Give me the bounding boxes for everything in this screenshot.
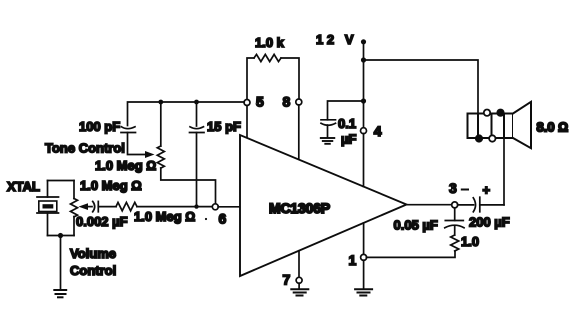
volume control potentiometer 1.0 Meg [70, 178, 142, 278]
svg-text:1.0: 1.0 [461, 234, 479, 249]
minus label [462, 189, 468, 191]
resistor 1.0 Meg series [116, 202, 195, 224]
svg-text:7: 7 [283, 272, 291, 288]
tone control potentiometer 1.0 Meg [45, 102, 164, 173]
svg-text:1.0 Meg Ω: 1.0 Meg Ω [80, 178, 142, 193]
svg-text:3: 3 [449, 180, 457, 196]
svg-text:5: 5 [256, 94, 264, 110]
svg-text:XTAL: XTAL [7, 179, 40, 194]
svg-text:12 V: 12 V [316, 32, 357, 47]
svg-text:4: 4 [374, 123, 382, 139]
wire pin 6 to amplifier [218, 206, 240, 208]
svg-text:15 pF: 15 pF [207, 119, 241, 134]
svg-text:100 pF: 100 pF [79, 119, 120, 134]
svg-text:0.1: 0.1 [338, 116, 356, 131]
svg-text:Control: Control [70, 263, 116, 278]
svg-text:+: + [483, 183, 491, 198]
capacitor 0.1 uF [321, 101, 364, 147]
capacitor 0.002 uF [76, 201, 128, 229]
svg-text:6: 6 [219, 211, 227, 227]
capacitor 15 pF [190, 102, 242, 205]
ground volume [54, 290, 66, 297]
svg-text:µF: µF [341, 132, 356, 147]
node junction volume bottom [58, 233, 63, 238]
wire 12V rail to speaker [364, 60, 479, 114]
volume wiper arrow [79, 203, 89, 210]
wire volume bottom to ground [60, 236, 62, 290]
op-amp U1 MC1306P triangle [240, 135, 407, 276]
node junction 15pF bottom on input wire [194, 204, 198, 208]
ground 0.1uF [321, 138, 335, 144]
svg-text:0.05 µF: 0.05 µF [394, 218, 438, 233]
capacitor 200 uF [458, 197, 510, 229]
ground pin 1 [355, 289, 372, 295]
svg-text:1.0 Meg Ω: 1.0 Meg Ω [95, 158, 156, 173]
resistor 1.0 [451, 234, 479, 251]
node junction 15pF top [194, 100, 199, 105]
pin 7 [283, 251, 303, 289]
wire tone pot bottom to pin 6 [161, 168, 216, 204]
crystal XTAL [7, 179, 59, 236]
svg-text:0.002 µF: 0.002 µF [76, 214, 128, 229]
svg-text:8: 8 [283, 94, 291, 110]
svg-text:1: 1 [349, 252, 357, 268]
wire xtal/pot loop bottom [48, 235, 75, 237]
pin 5 [244, 94, 264, 139]
svg-text:1.0 k: 1.0 k [255, 35, 285, 50]
node junction 0.1uF tap [361, 98, 366, 103]
capacitor 100 pF [79, 119, 136, 134]
svg-text:Tone Control: Tone Control [45, 141, 125, 156]
svg-text:Volume: Volume [70, 246, 116, 261]
wire xtal/pot loop top [48, 180, 75, 182]
capacitor 0.05 uF [394, 208, 465, 235]
speaker 8.0 ohm [468, 102, 569, 148]
wire 100pF to tone wiper arm [128, 133, 146, 155]
svg-text:1.0 Meg Ω: 1.0 Meg Ω [134, 209, 195, 224]
node junction 12V rail [361, 57, 366, 62]
wire top input bus y=102 [128, 102, 245, 126]
tone wiper arrow [145, 151, 155, 158]
wire amp output to pin 3 [407, 204, 452, 206]
pin 6 [205, 204, 227, 227]
node junction tone pot top [158, 100, 163, 105]
wire 200uF to speaker [503, 138, 505, 205]
svg-text:MC1306P: MC1306P [269, 200, 330, 216]
wire resistor to pin 6 [137, 206, 213, 208]
resistor 1.0 k (feedback between pins 5 and 8) [247, 35, 299, 100]
svg-text:200 µF: 200 µF [469, 215, 510, 230]
12 V supply [316, 32, 366, 128]
pin 1 [349, 223, 367, 289]
wire pin 1 to 1.0 resistor [366, 251, 455, 257]
pin 4 [361, 123, 382, 187]
svg-text:8.0 Ω: 8.0 Ω [537, 120, 569, 135]
pin 8 [283, 94, 302, 160]
ground pin 7 [291, 289, 308, 295]
pin 3 [449, 180, 458, 208]
